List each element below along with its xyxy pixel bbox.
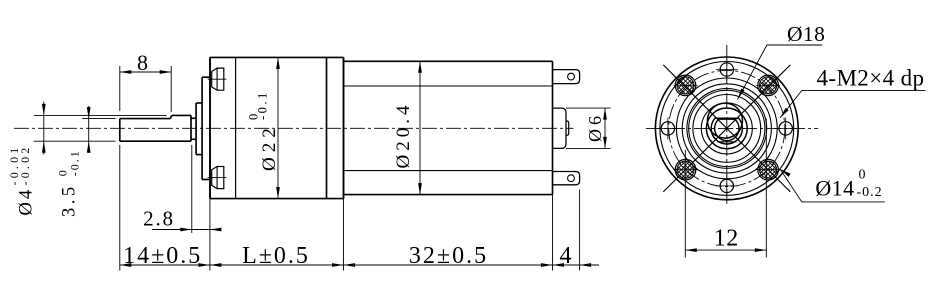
svg-text:-0.1: -0.1 <box>256 90 270 120</box>
svg-text:-0.1: -0.1 <box>67 149 81 176</box>
svg-text:Ø14: Ø14 <box>815 176 854 201</box>
svg-text:L±0.5: L±0.5 <box>242 243 310 269</box>
svg-text:0: 0 <box>859 168 866 183</box>
svg-text:32±0.5: 32±0.5 <box>409 243 488 269</box>
svg-text:Ø18: Ø18 <box>787 22 825 46</box>
svg-text:8: 8 <box>137 50 148 75</box>
svg-text:-0.2: -0.2 <box>857 185 883 200</box>
svg-text:2.8: 2.8 <box>143 207 175 231</box>
svg-text:4-M2×4 dp: 4-M2×4 dp <box>817 66 925 91</box>
svg-text:-0.02: -0.02 <box>18 145 32 186</box>
svg-text:Ø20.4: Ø20.4 <box>393 102 414 169</box>
svg-text:Ø4: Ø4 <box>17 187 37 216</box>
svg-text:3.5: 3.5 <box>60 183 80 217</box>
svg-text:Ø6: Ø6 <box>585 112 605 142</box>
svg-text:12: 12 <box>714 226 739 252</box>
svg-text:4: 4 <box>560 243 572 269</box>
svg-text:Ø22: Ø22 <box>259 123 280 171</box>
svg-text:14±0.5: 14±0.5 <box>123 243 202 269</box>
